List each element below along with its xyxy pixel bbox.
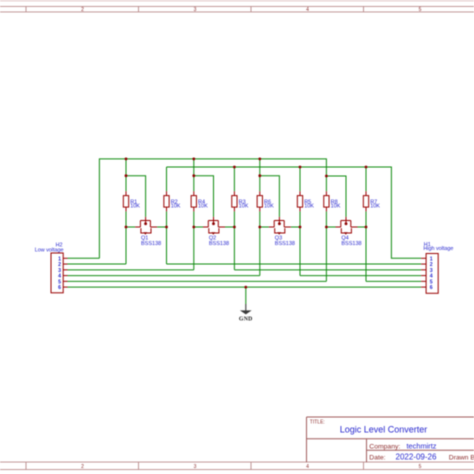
svg-text:GND: GND — [239, 316, 253, 322]
wire source node to Q1 — [126, 226, 135, 228]
resistor R4 10K — [191, 191, 208, 211]
wire LV rail drop to R4 top — [193, 159, 195, 191]
junction LV rail at x=259.8 — [258, 158, 261, 161]
junction HV rail at x=234.4 — [233, 166, 236, 169]
svg-text:6: 6 — [58, 285, 61, 291]
wire LV rail (H2 pin1 up and across to channel 4) — [99, 159, 326, 258]
transistor Q1 BSS138 — [135, 217, 161, 247]
wire gate-node drop to R8 top — [325, 176, 327, 191]
wire HV rail (across to H1 pin1) — [167, 167, 422, 258]
wire gate branch of Q2 — [194, 176, 214, 217]
junction drain node ch2 — [233, 226, 236, 229]
svg-text:techmirtz: techmirtz — [407, 441, 437, 450]
pin 1 of H1 — [421, 256, 433, 262]
wire GND bus (H2 pin6 to H1 pin6) — [68, 286, 422, 288]
wire channel 2 drain node to H1 pin3 — [234, 269, 421, 271]
junction drain node ch4 — [365, 226, 368, 229]
svg-text:Logic Level Converter: Logic Level Converter — [340, 424, 428, 434]
svg-text:4: 4 — [306, 464, 309, 470]
junction gate tap node ch1 — [125, 174, 128, 177]
svg-text:Low voltage: Low voltage — [35, 247, 64, 253]
resistor R7 10K — [363, 191, 380, 211]
svg-text:10K: 10K — [198, 204, 208, 210]
svg-text:High voltage: High voltage — [423, 246, 453, 252]
wire Q3 to drain node — [291, 226, 300, 228]
wire H2 pin3 to channel 2 source node — [68, 269, 194, 271]
wire gate branch of Q4 — [326, 176, 346, 217]
wire H2 pin1 to LV rail riser — [68, 257, 100, 259]
svg-text:10K: 10K — [171, 204, 181, 210]
resistor R5 10K — [297, 191, 314, 211]
wire source node to Q2 — [194, 226, 203, 228]
ground GND flag — [239, 304, 253, 322]
wire LV rail drop to R1 top — [125, 159, 127, 191]
junction drain node ch1 — [165, 226, 168, 229]
wire R6 bottom to LV bus wire 4 — [259, 211, 261, 275]
transistor Q2 BSS138 — [203, 217, 229, 247]
resistor R2 10K — [164, 191, 181, 211]
pin 6 of H2 — [58, 285, 67, 291]
wire source node to Q3 — [260, 226, 269, 228]
wire R5 bottom to HV bus wire 4 — [299, 211, 301, 275]
wire R7 bottom to HV bus wire 5 — [365, 211, 367, 281]
junction LV rail at x=126 — [125, 158, 128, 161]
svg-text:4: 4 — [306, 7, 309, 13]
wire gate branch of Q3 — [260, 176, 280, 217]
svg-text:10K: 10K — [264, 204, 274, 210]
junction HV rail at x=300 — [299, 166, 302, 169]
svg-text:5: 5 — [419, 7, 422, 13]
resistor R6 10K — [257, 191, 274, 211]
wire Q1 to drain node — [157, 226, 166, 228]
wire gate branch of Q1 — [126, 176, 146, 217]
junction HV rail at x=366 — [365, 166, 368, 169]
junction gate tap node ch4 — [325, 175, 328, 178]
pin 2 of H1 — [421, 262, 433, 268]
pin 3 of H1 — [421, 268, 433, 274]
resistor R8 10K — [324, 191, 341, 211]
junction source node ch3 — [258, 226, 261, 229]
svg-text:5: 5 — [419, 464, 422, 470]
wire Q4 to drain node — [358, 226, 367, 228]
wire channel 3 drain node to H1 pin4 — [300, 275, 421, 277]
svg-text:10K: 10K — [130, 204, 140, 210]
transistor Q3 BSS138 — [269, 217, 295, 247]
resistor R3 10K — [232, 191, 249, 211]
junction source node ch4 — [325, 226, 328, 229]
pin 5 of H1 — [421, 279, 433, 285]
junction LV rail at x=193.8 — [192, 158, 195, 161]
pin 4 of H1 — [421, 274, 433, 280]
svg-text:6: 6 — [430, 285, 433, 291]
svg-text:3: 3 — [194, 7, 197, 13]
wire channel 4 drain node to H1 pin5 — [366, 280, 421, 282]
junction source node ch2 — [192, 226, 195, 229]
wire Q2 to drain node — [225, 226, 234, 228]
svg-text:TITLE:: TITLE: — [310, 419, 325, 425]
resistor R1 10K — [123, 191, 140, 211]
svg-text:BSS138: BSS138 — [341, 241, 361, 247]
svg-text:10K: 10K — [304, 204, 314, 210]
wire H2 pin4 to channel 3 source node — [68, 275, 260, 277]
wire R1 bottom to LV bus wire 2 — [125, 211, 127, 264]
junction GND tap — [244, 286, 247, 289]
wire R4 bottom to LV bus wire 3 — [193, 211, 195, 269]
svg-text:Drawn By:: Drawn By: — [449, 454, 474, 461]
wire H2 pin5 to channel 4 source node — [68, 280, 327, 282]
wire channel 1 drain node to H1 pin2 — [167, 263, 422, 265]
pin 1 of H2 — [58, 256, 67, 262]
wire source node to Q4 — [326, 226, 335, 228]
junction drain node ch3 — [299, 226, 302, 229]
pin 2 of H2 — [58, 262, 67, 268]
wire R2 top to HV rail — [166, 167, 168, 191]
junction gate tap node ch2 — [192, 174, 195, 177]
wire R3 bottom to HV bus wire 3 — [233, 211, 235, 269]
svg-text:BSS138: BSS138 — [275, 241, 295, 247]
pin 5 of H2 — [58, 279, 67, 285]
svg-text:3: 3 — [194, 464, 197, 470]
svg-text:BSS138: BSS138 — [141, 241, 161, 247]
svg-text:Date:: Date: — [369, 454, 385, 461]
wire R2 bottom to HV bus wire 2 — [166, 211, 168, 264]
wire HV rail drop to R3 top — [233, 167, 235, 191]
title block — [307, 417, 474, 462]
wire LV rail drop to R6 top — [259, 159, 261, 191]
wire H2 pin2 to channel 1 source node — [68, 263, 127, 265]
svg-text:Company:: Company: — [369, 443, 400, 450]
wire HV rail drop to R7 top — [365, 167, 367, 191]
junction source node ch1 — [125, 226, 128, 229]
wire GND tap — [245, 287, 247, 304]
pin 6 of H1 — [421, 285, 433, 291]
wire HV rail drop to R2 top — [166, 167, 168, 191]
pin 4 of H2 — [58, 274, 67, 280]
transistor Q4 BSS138 — [336, 217, 362, 247]
svg-text:2022-09-26: 2022-09-26 — [396, 452, 437, 461]
wire HV rail drop to R5 top — [299, 167, 301, 191]
connector H2 Low voltage — [35, 242, 64, 292]
svg-text:BSS138: BSS138 — [209, 241, 229, 247]
svg-text:10K: 10K — [370, 204, 380, 210]
svg-text:2: 2 — [81, 464, 84, 470]
svg-text:10K: 10K — [239, 204, 249, 210]
svg-text:10K: 10K — [331, 204, 341, 210]
wire R8 bottom to LV bus wire 5 — [325, 211, 327, 281]
pin 3 of H2 — [58, 268, 67, 274]
svg-text:2: 2 — [81, 7, 84, 13]
junction gate tap node ch3 — [258, 174, 261, 177]
connector H1 High voltage — [423, 242, 453, 293]
